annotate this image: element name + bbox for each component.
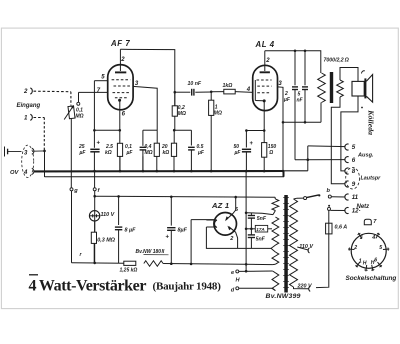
svg-text:7000/2,2 Ω: 7000/2,2 Ω bbox=[324, 58, 349, 64]
svg-text:MΩ: MΩ bbox=[214, 111, 222, 117]
svg-text:OV: OV bbox=[10, 170, 20, 176]
svg-text:8 µF: 8 µF bbox=[125, 228, 137, 234]
svg-text:17A: 17A bbox=[256, 227, 264, 232]
svg-text:6: 6 bbox=[374, 258, 377, 264]
svg-text:+: + bbox=[97, 141, 101, 147]
svg-text:5nF: 5nF bbox=[256, 237, 266, 243]
svg-text:2: 2 bbox=[353, 245, 357, 251]
svg-text:5: 5 bbox=[379, 245, 382, 251]
svg-text:1: 1 bbox=[359, 259, 362, 265]
svg-text:3: 3 bbox=[360, 235, 363, 241]
svg-text:9: 9 bbox=[352, 181, 356, 188]
svg-text:µF: µF bbox=[126, 150, 134, 156]
svg-text:8µF: 8µF bbox=[178, 228, 188, 234]
svg-text:2: 2 bbox=[265, 58, 270, 64]
svg-text:d: d bbox=[231, 288, 235, 294]
svg-text:4: 4 bbox=[23, 170, 28, 176]
svg-text:0,3 MΩ: 0,3 MΩ bbox=[97, 238, 115, 244]
svg-text:1,25 kΩ: 1,25 kΩ bbox=[120, 268, 138, 274]
svg-text:2: 2 bbox=[23, 88, 28, 95]
svg-text:µF: µF bbox=[79, 150, 87, 156]
svg-text:g: g bbox=[73, 188, 78, 194]
svg-text:µF: µF bbox=[197, 150, 205, 156]
svg-text:(Baujahr 1948): (Baujahr 1948) bbox=[153, 281, 222, 293]
svg-text:AF 7: AF 7 bbox=[110, 39, 130, 48]
svg-text:kΩ: kΩ bbox=[163, 150, 170, 156]
svg-text:Sockelschaltung: Sockelschaltung bbox=[346, 275, 397, 282]
svg-text:MΩ: MΩ bbox=[145, 150, 153, 156]
svg-text:Lautspr: Lautspr bbox=[361, 175, 382, 181]
svg-text:kΩ: kΩ bbox=[105, 150, 112, 156]
svg-text:Eingang: Eingang bbox=[17, 103, 41, 109]
svg-text:Kölleda: Kölleda bbox=[366, 109, 375, 135]
svg-text:2: 2 bbox=[120, 57, 125, 63]
svg-text:H: H bbox=[363, 261, 367, 267]
svg-text:MΩ: MΩ bbox=[76, 114, 84, 120]
svg-text:µF: µF bbox=[234, 150, 242, 156]
svg-text:Ausg.: Ausg. bbox=[357, 153, 374, 159]
svg-text:4: 4 bbox=[246, 87, 251, 93]
svg-text:Bv.NW399: Bv.NW399 bbox=[266, 293, 301, 300]
svg-text:6: 6 bbox=[352, 157, 356, 164]
svg-text:nF: nF bbox=[297, 98, 304, 104]
svg-text:1kΩ: 1kΩ bbox=[223, 83, 233, 89]
svg-text:5nF: 5nF bbox=[257, 216, 267, 222]
svg-text:110 V: 110 V bbox=[101, 212, 115, 218]
svg-text:12·: 12· bbox=[352, 208, 361, 215]
svg-text:0,6 A: 0,6 A bbox=[335, 225, 348, 231]
svg-text:µF: µF bbox=[283, 97, 291, 103]
svg-text:5: 5 bbox=[352, 144, 356, 151]
svg-text:4: 4 bbox=[371, 235, 375, 241]
svg-text:1: 1 bbox=[24, 115, 28, 122]
svg-text:Bv.NW 180 II: Bv.NW 180 II bbox=[136, 249, 165, 255]
svg-text:AL 4: AL 4 bbox=[255, 40, 275, 49]
svg-text:Ω: Ω bbox=[268, 150, 273, 156]
svg-text:8: 8 bbox=[352, 168, 356, 175]
svg-text:+: + bbox=[250, 141, 254, 147]
svg-text:10 nF: 10 nF bbox=[188, 81, 202, 87]
svg-text:MΩ: MΩ bbox=[178, 111, 186, 117]
svg-text:+: + bbox=[166, 235, 170, 241]
svg-text:e: e bbox=[231, 270, 234, 276]
svg-text:b: b bbox=[327, 188, 331, 194]
svg-text:11: 11 bbox=[352, 194, 359, 201]
svg-text:AZ 1: AZ 1 bbox=[211, 201, 229, 210]
svg-text:4 Watt-Verstärker: 4 Watt-Verstärker bbox=[29, 278, 147, 295]
